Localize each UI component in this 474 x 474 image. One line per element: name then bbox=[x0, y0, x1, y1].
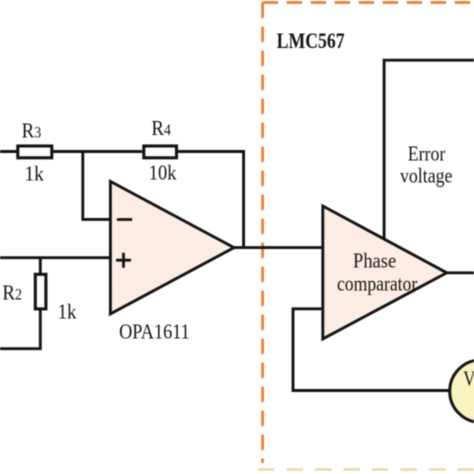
svg-text:comparator: comparator bbox=[337, 273, 418, 296]
svg-text:R4: R4 bbox=[151, 117, 171, 140]
svg-text:1k: 1k bbox=[58, 301, 77, 324]
svg-text:R3: R3 bbox=[22, 120, 42, 143]
svg-text:LMC567: LMC567 bbox=[277, 29, 345, 53]
svg-text:1k: 1k bbox=[25, 163, 45, 186]
svg-text:VCO: VCO bbox=[463, 368, 474, 391]
svg-text:Phase: Phase bbox=[353, 249, 396, 272]
svg-text:10k: 10k bbox=[149, 161, 177, 184]
svg-text:voltage: voltage bbox=[400, 165, 452, 188]
svg-text:R2: R2 bbox=[2, 282, 22, 305]
svg-text:Error: Error bbox=[408, 143, 446, 166]
svg-text:OPA1611: OPA1611 bbox=[119, 321, 190, 344]
